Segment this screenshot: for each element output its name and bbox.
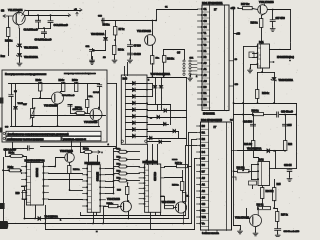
svg-text:R27 1к: R27 1к	[281, 215, 289, 217]
wire C8 to ground	[130, 55, 132, 59]
diode DA3 row 2	[133, 88, 136, 92]
wire matrix col a	[170, 105, 172, 125]
wire stack 4 right	[128, 173, 140, 175]
text bar amplifier	[62, 136, 101, 140]
svg-text:VT4 КТ361Б: VT4 КТ361Б	[84, 121, 98, 124]
junction stack	[113, 186, 115, 188]
IC DD1 right pin 8	[229, 85, 234, 87]
wire R18 to DA1	[261, 28, 263, 44]
svg-text:С6 0.1: С6 0.1	[93, 92, 100, 94]
resistor R17b	[177, 165, 188, 168]
IC DD1 right pin 16	[229, 60, 234, 62]
resistor R16s	[126, 187, 129, 195]
transistor VT10	[175, 202, 186, 224]
IC DA3 diode array body	[121, 75, 147, 144]
svg-text:R15 1к: R15 1к	[107, 203, 114, 205]
wire margin to C19	[290, 168, 297, 170]
wire DD4 bottom pin b	[96, 213, 98, 216]
wire R27b to C20	[277, 222, 279, 229]
wire VT8 emitter	[69, 164, 71, 166]
svg-text:R7 1к: R7 1к	[119, 28, 126, 31]
svg-text:DЗ: DЗ	[202, 145, 206, 148]
wire DA1 right pin to drop	[270, 49, 291, 51]
wire stack 3 right	[128, 166, 140, 168]
resistor R19	[256, 90, 259, 99]
svg-text:АЗ: АЗ	[203, 80, 207, 83]
wire DA3 row 7	[126, 122, 148, 124]
zener VD2	[17, 54, 22, 57]
ground contacts	[188, 76, 193, 81]
wire R24 down	[262, 199, 264, 209]
svg-text:Блок управления электродвигате: Блок управления электродвигателем	[5, 73, 47, 76]
wire to VD3	[105, 31, 107, 38]
wire R17b right	[188, 166, 192, 168]
wire R29 to base node	[87, 108, 89, 114]
svg-text:С4 0.033мкФ: С4 0.033мкФ	[54, 24, 69, 27]
svg-text:усилитель записи-сч: усилитель записи-сч	[63, 138, 87, 141]
wire to VD13	[274, 73, 276, 78]
wire row 114	[234, 114, 253, 116]
diode DA3 row 3	[133, 95, 136, 99]
junction drop-DA1	[289, 60, 291, 62]
wire box bottom rail	[11, 126, 100, 128]
wire VT3 collector to R3	[61, 91, 64, 93]
wire bus riser 1	[188, 133, 190, 219]
node +9V input arrow	[3, 15, 13, 18]
wire stack 3 left	[114, 166, 119, 168]
ground C20	[275, 233, 280, 238]
wire stack 1 right	[128, 151, 140, 153]
zener VD1	[17, 44, 22, 47]
wire stub ground mid 1	[92, 57, 94, 60]
wire bus3 right part	[151, 229, 195, 231]
resistor R7	[114, 27, 117, 36]
junction feed-bus	[115, 147, 117, 149]
wire matrix to DD5 c	[157, 145, 159, 165]
wire to VD15	[15, 84, 17, 107]
transistor VT1	[13, 10, 25, 28]
diode VD9	[164, 122, 166, 125]
wire C20 to ground	[277, 231, 279, 234]
wire R9b to pin	[21, 171, 22, 174]
wire DD5 inner column	[148, 165, 150, 213]
wire R20b to VT10	[174, 207, 177, 209]
junction stack	[113, 174, 115, 176]
junction bus1 cross	[44, 218, 46, 220]
diode VD11	[150, 136, 152, 139]
resistor R1	[7, 28, 10, 37]
wire DD2 inner column	[208, 123, 210, 231]
wire DA3 internal bus	[125, 77, 127, 144]
wire DA3 top feed 2	[127, 63, 129, 76]
diode VD12	[159, 140, 161, 143]
resistor R9	[83, 151, 93, 154]
junction stack	[113, 193, 115, 195]
wire array left feed	[116, 84, 118, 149]
wire DA2 input link	[251, 165, 253, 180]
junction emitter-rail	[57, 125, 59, 127]
wire to R16s	[127, 184, 129, 187]
junction C17 tap	[272, 9, 274, 11]
junction VD14 in	[273, 150, 275, 152]
svg-text:R 1к: R 1к	[117, 163, 121, 165]
wire left branch	[11, 84, 13, 95]
resistor R11s	[117, 150, 128, 153]
junction margin-bus2	[2, 223, 4, 225]
svg-text:Вкл: Вкл	[1, 55, 6, 58]
resistor R29	[86, 100, 89, 108]
svg-text:С18 47мкФ: С18 47мкФ	[281, 111, 293, 114]
wire rail to R2	[40, 83, 42, 84]
IC DD1 left pins	[198, 8, 210, 108]
capacitor C12	[68, 105, 72, 107]
wire long feed bus	[243, 47, 245, 171]
wire to contact column	[164, 50, 185, 60]
resistor R8b	[9, 155, 24, 158]
wire C19 down	[289, 172, 291, 177]
wire rail to R29	[87, 84, 89, 100]
svg-text:VT10 КТ315Б: VT10 КТ315Б	[162, 202, 176, 204]
IC DD4 pins	[83, 168, 106, 209]
resistor R18b	[181, 182, 184, 191]
IC DA2 body	[258, 162, 270, 186]
wire DD3 inner column	[30, 163, 32, 206]
IC DD5 body	[145, 164, 161, 212]
transistor VT2	[145, 33, 156, 47]
wire VT2 emitter	[152, 46, 154, 56]
capacitor C21	[90, 50, 95, 52]
svg-text:0 линия канала: 0 линия канала	[202, 232, 219, 235]
resistor R17	[243, 7, 253, 10]
wire stack 2 left	[114, 159, 119, 161]
resistor R24	[261, 188, 264, 199]
wire VT1 base to R1	[8, 17, 10, 28]
svg-text:С8 100: С8 100	[134, 53, 142, 56]
wire R15 left	[104, 206, 109, 208]
wire DA2 inner column	[261, 162, 263, 186]
wire VT8 base to DD3	[49, 158, 65, 167]
junction DD4-bus2	[92, 223, 94, 225]
IC DD3 pins	[22, 166, 49, 203]
wire DD4 inner column	[91, 165, 93, 213]
junction DD3-bus1	[34, 218, 36, 220]
wire rail to C2	[38, 16, 40, 21]
diode VD14	[267, 149, 270, 153]
svg-text:R20 1к: R20 1к	[252, 110, 260, 113]
wire +9V rail A	[26, 10, 81, 12]
wire DA3 row 3	[126, 96, 148, 98]
svg-text:VT3 КТ315Б: VT3 КТ315Б	[44, 105, 58, 108]
wire VT2 collector to rail	[152, 21, 154, 35]
svg-text:R4 1к: R4 1к	[72, 79, 78, 82]
wire right margin link	[296, 104, 298, 115]
wire stack 4 left	[114, 173, 119, 175]
capacitor C8	[128, 53, 133, 55]
wire bus riser 3	[194, 159, 196, 230]
node rail A output arrow	[80, 9, 82, 12]
wire matrix row 2	[148, 110, 187, 112]
varicap VD3	[103, 38, 107, 41]
junction right bus	[295, 114, 297, 116]
wire DA2 right pin	[270, 168, 276, 170]
wire DA1 inner column	[260, 45, 262, 69]
wire rail to R3	[63, 83, 65, 84]
wire down to C17	[272, 10, 274, 20]
wire DA1 pin left 3	[253, 57, 258, 59]
wire DA1 bottom to VD13	[263, 72, 275, 74]
junction rail-C4	[50, 14, 52, 16]
junction R10b bus	[24, 218, 26, 220]
wire down to trimmer	[32, 99, 34, 109]
wire DD5 to R20b	[161, 197, 165, 208]
svg-text:ит: ит	[150, 118, 152, 120]
wire pin box link	[253, 57, 255, 59]
svg-text:генератор тактовых импульсов: генератор тактовых импульсов	[64, 73, 96, 75]
svg-text:ОС: ОС	[5, 127, 9, 129]
wire stack 5 right	[128, 180, 140, 182]
wire DD3-DD4 b	[49, 179, 83, 181]
IC DD2 pin labels	[202, 125, 206, 226]
wire rail to C4	[50, 16, 52, 21]
wire bottom loop	[81, 215, 186, 217]
junction bus2 cross	[44, 223, 46, 225]
svg-text:DD2 КР1008ВЖ5: DD2 КР1008ВЖ5	[201, 118, 222, 122]
resistor R21	[252, 141, 255, 151]
wire DD4 top feed	[97, 156, 99, 165]
junction VT9-bus1	[127, 218, 129, 220]
wire VD14 down to DA2	[275, 151, 277, 169]
wire R8b up	[5, 149, 7, 157]
svg-text:CS: CS	[202, 203, 206, 206]
capacitor C6	[97, 85, 101, 87]
junction VT12-R26	[257, 207, 259, 209]
junction DA3 pin 8	[146, 129, 148, 131]
wire R2 to VT3 base	[41, 92, 52, 99]
wire matrix col b	[178, 132, 180, 139]
resistor R15s	[117, 179, 128, 182]
svg-text:СТ2 ИЕ8: СТ2 ИЕ8	[153, 172, 155, 182]
wire VT1 emitter down	[19, 29, 21, 44]
IC DD4 body	[87, 165, 100, 213]
wire stack bus	[113, 149, 115, 194]
wire C2 down	[38, 23, 40, 29]
scan artifact left 1	[0, 98, 3, 104]
wire to VD6	[161, 78, 163, 86]
junction C14 tap	[252, 114, 254, 116]
ground below C8	[128, 58, 133, 63]
svg-text:R 1к: R 1к	[117, 156, 121, 158]
wire R8b to DD3	[24, 157, 27, 163]
scan artifact bottom left	[0, 221, 8, 229]
svg-text:VT9 КТ315Б: VT9 КТ315Б	[107, 198, 120, 201]
wire DD4 to stack	[106, 168, 114, 170]
wire matrix row 6	[148, 138, 187, 140]
diode DA3 row 5	[133, 108, 136, 112]
ground below R6	[112, 58, 117, 63]
wire C6 to VT4	[99, 87, 101, 109]
wire R15 to VT9 base	[118, 206, 122, 208]
wire box to array feed	[108, 83, 117, 85]
resistor R12s	[117, 158, 128, 161]
capacitor C16	[102, 18, 104, 23]
wire to VD5	[155, 78, 157, 86]
junction DA3 pin 6	[146, 115, 148, 117]
capacitor C20	[275, 229, 281, 231]
svg-text:R9 1к: R9 1к	[8, 167, 14, 169]
wire C13 right	[30, 148, 34, 150]
svg-text:R18 1к: R18 1к	[172, 185, 179, 187]
capacitor C2	[36, 20, 41, 22]
svg-text:К561ЛЕ5: К561ЛЕ5	[35, 168, 37, 178]
wire DA2 pin 3	[252, 179, 259, 181]
svg-text:т: т	[102, 152, 103, 154]
svg-text:VT1 КТ315Б: VT1 КТ315Б	[8, 8, 23, 12]
svg-text:R1 10к: R1 10к	[5, 40, 13, 43]
wire R21 to DA2	[254, 151, 259, 162]
wire C7 to C8	[130, 47, 132, 54]
junction bus 103	[233, 102, 235, 104]
wire DA2 out to R25	[274, 180, 276, 188]
wire DA3 top feed	[124, 67, 126, 76]
block box motor control unit	[2, 70, 107, 142]
wire rail to R7	[115, 21, 117, 27]
wire R10b to bus1	[24, 200, 26, 219]
IC DD2 bottom pins	[206, 230, 217, 234]
capacitor C17	[270, 20, 275, 22]
wire DD4 bottom pin a	[93, 213, 95, 224]
wire C13 left	[24, 148, 28, 150]
svg-text:С3 0.033x1мкФ: С3 0.033x1мкФ	[35, 39, 53, 42]
resistor R12	[68, 166, 71, 174]
wire DD2 inner column 2	[226, 123, 228, 231]
wire bus riser 0	[185, 146, 187, 216]
junction feed-R23	[242, 170, 244, 172]
svg-text:R5 10к: R5 10к	[103, 23, 111, 26]
wire DD2 pin2 tap	[189, 132, 197, 134]
wire DA2 pin 1	[252, 164, 259, 166]
wire R8b left	[6, 156, 11, 158]
svg-text:ВЗ: ВЗ	[203, 104, 207, 107]
node terminal arrow kB	[76, 12, 78, 16]
capacitor C7	[128, 45, 133, 47]
wire down to C14	[253, 115, 255, 125]
wire VD13 down	[274, 81, 276, 104]
junction VT8 base	[54, 166, 56, 168]
wire feed to stack bus	[114, 148, 117, 150]
diode VD6	[159, 86, 163, 88]
IC DD2 left pins	[197, 125, 209, 227]
wire VD15 down	[15, 110, 17, 127]
wire VT4 collector to C6	[99, 107, 100, 109]
wire to R8	[163, 50, 165, 56]
resistor R27b	[276, 212, 279, 222]
wire DD5 to bus3	[150, 213, 152, 230]
junction DA3 pin 2	[146, 89, 148, 91]
wire down to C15	[285, 115, 287, 125]
resistor R4	[75, 83, 78, 92]
svg-text:VT2 КТ361Б: VT2 КТ361Б	[137, 29, 151, 33]
junction VD14-R22	[284, 150, 286, 152]
junction C3 top	[43, 27, 45, 29]
wire DA3 row 5	[126, 109, 148, 111]
ground mid 1	[90, 60, 95, 65]
svg-text:1к: 1к	[187, 196, 189, 198]
wire DD4 to stack	[106, 181, 114, 183]
wire to C7	[130, 41, 132, 45]
junction DA1 bottom	[261, 71, 263, 73]
scan artifact left 3	[0, 203, 5, 209]
pin box DA1	[249, 52, 254, 58]
wire rail riser	[156, 10, 158, 21]
wire stack 5 left	[114, 180, 119, 182]
wire bottom bus 2	[4, 223, 192, 225]
wire to bus2	[103, 207, 105, 224]
junction feed-103	[242, 102, 244, 104]
wire VD6 down	[161, 89, 163, 111]
capacitor C14	[251, 124, 256, 126]
junction VD13	[273, 102, 275, 104]
wire contacts to ground	[190, 75, 192, 77]
svg-text:R12 1к: R12 1к	[73, 169, 80, 171]
resistor R9b	[7, 169, 22, 172]
wire matrix right bus	[186, 78, 188, 146]
wire DA2 bottom	[262, 186, 264, 188]
junction VT2-rail	[152, 20, 154, 22]
ground VT12	[253, 231, 258, 236]
svg-text:R6 1к: R6 1к	[118, 49, 125, 52]
wire R1 to switch node	[8, 37, 10, 56]
wire matrix row 4	[148, 124, 169, 126]
wire base to trimmer	[33, 98, 41, 100]
resistor R14s	[117, 172, 128, 175]
junction margin R9b	[2, 169, 4, 171]
junction feed-114	[242, 114, 244, 116]
wire C3 down	[44, 34, 46, 38]
svg-text:R9 1к: R9 1к	[83, 149, 89, 151]
wire VT3 emitter down	[57, 105, 59, 127]
diode VD5	[153, 86, 157, 88]
junction trimmer-rail	[31, 125, 33, 127]
svg-text:DA3: DA3	[123, 77, 128, 80]
junction R12	[69, 189, 71, 191]
wire DA1 pin left 1	[244, 46, 258, 48]
wire VD1 to VD2	[19, 48, 21, 54]
resistor R18	[260, 19, 263, 28]
ground VD3 branch	[90, 58, 95, 63]
wire base line VT2	[41, 146, 116, 148]
wire array row stub 1	[148, 83, 153, 85]
wire R28 to VT4 base	[86, 113, 90, 115]
junction stack	[113, 180, 115, 182]
wire DA1 pin left 2	[253, 53, 258, 55]
svg-text:R26 1к: R26 1к	[257, 204, 265, 206]
svg-text:R 1к: R 1к	[117, 170, 121, 172]
IC DA1 body	[258, 44, 270, 68]
IC DA2 pin nubs	[257, 164, 259, 180]
svg-text:VD13 КС156А: VD13 КС156А	[279, 79, 294, 82]
resistor R6	[113, 46, 116, 55]
trimmer resistor R27	[30, 108, 35, 120]
wire R9 to DD4 top	[88, 154, 90, 165]
wire array row stub 2	[148, 89, 153, 91]
pin box DA2	[249, 181, 257, 185]
wire right drop to DA1	[290, 10, 292, 50]
resistor R22	[284, 141, 287, 151]
wire left margin bus	[3, 158, 5, 224]
svg-text:С2 0.033мкФ: С2 0.033мкФ	[24, 29, 39, 32]
wire VT11 collector right	[268, 9, 291, 11]
diode DA3 row 8	[133, 128, 136, 132]
